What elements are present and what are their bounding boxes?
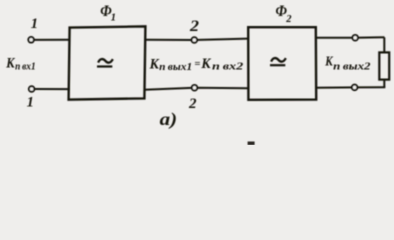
terminal top-right: [352, 35, 358, 41]
wire right vertical bottom from load resistor: [383, 80, 385, 88]
wire upper-left from terminal 1 to filter F1: [34, 39, 70, 41]
svg-text:К: К: [5, 55, 15, 71]
terminal bottom-right: [352, 85, 358, 91]
F1 tilde underline: [97, 65, 112, 67]
svg-text:п вых2: п вых2: [333, 60, 371, 72]
svg-text:К: К: [200, 56, 211, 72]
svg-text:2: 2: [188, 96, 197, 112]
wire lower-middle F1 to F2: [144, 88, 248, 90]
terminal bottom-middle node 2: [192, 85, 198, 91]
wire right vertical top into load resistor: [383, 37, 385, 52]
svg-text:1: 1: [31, 16, 38, 32]
terminal top-middle node 2: [192, 37, 198, 43]
svg-text:2: 2: [285, 14, 292, 25]
svg-text:п вых1: п вых1: [159, 61, 192, 73]
svg-text:=: =: [194, 59, 200, 70]
stray mark bottom edge: [248, 142, 255, 146]
wire upper-right F2 to load: [316, 36, 384, 38]
filter block F2: [248, 27, 316, 100]
svg-text:а): а): [160, 109, 178, 130]
F2 tilde symbol: [271, 58, 286, 62]
svg-text:1: 1: [27, 95, 34, 111]
wire upper-middle F1 to F2: [145, 39, 248, 40]
svg-text:п вх1: п вх1: [15, 61, 35, 73]
svg-text:п вх2: п вх2: [212, 60, 244, 72]
filter block F1: [69, 26, 146, 99]
terminal top-left: [28, 37, 33, 43]
F2 tilde underline: [270, 64, 285, 66]
svg-text:К: К: [149, 57, 160, 73]
wire lower-right load to F2: [316, 86, 385, 89]
wire lower-left from terminal 1 to filter F1: [35, 88, 70, 90]
load resistor: [379, 52, 389, 79]
svg-text:1: 1: [111, 12, 116, 23]
F1 tilde symbol: [98, 59, 113, 63]
svg-text:2: 2: [189, 18, 199, 35]
terminal bottom-left: [29, 86, 34, 92]
